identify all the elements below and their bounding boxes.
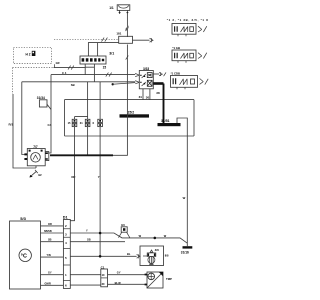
svg-text:BL: BL (127, 252, 131, 256)
svg-text:5: 5 (65, 256, 67, 260)
svg-text:SB: SB (87, 238, 91, 242)
svg-text:4/6: 4/6 (155, 248, 160, 252)
ground point 31/34 (39, 100, 51, 110)
svg-text:C 4: C 4 (62, 71, 67, 75)
svg-text:BL/R: BL/R (115, 281, 121, 285)
svg-text:10: 10 (102, 273, 105, 277)
svg-text:SB/SB: SB/SB (44, 230, 52, 233)
wire D1 to C1 pin 10 (70, 274, 101, 276)
ground bus right edge (193, 100, 195, 136)
connector strip D1 (63, 220, 70, 289)
sensor wire Y to ground (70, 229, 187, 244)
svg-text:D1: D1 (63, 216, 68, 220)
svg-text:31: 31 (139, 95, 143, 99)
relay ground stub (143, 89, 150, 100)
svg-text:2: 2 (65, 224, 67, 228)
dashed feed wire with marker (13, 64, 86, 69)
wire connector c riser (99, 82, 101, 120)
cluster wire Y/N (41, 254, 64, 257)
temp sensor (145, 272, 163, 288)
wire row B to relay (22, 81, 140, 84)
cluster wire OR (41, 223, 64, 226)
sender 4/6 (140, 246, 164, 266)
svg-text:GN/R: GN/R (45, 282, 51, 285)
junction dot on row B (112, 83, 114, 85)
left return wire down to pump (22, 82, 28, 155)
svg-text:*1 CDB: *1 CDB (171, 71, 180, 75)
legend fork 2 (198, 53, 207, 59)
main feed wire from 181 down to pump (50, 45, 128, 156)
wire GY to temp sensor (108, 271, 149, 275)
relay output stub with connector (153, 72, 166, 76)
riser to connector row (87, 82, 89, 120)
svg-text:1: 1 (65, 273, 67, 277)
wire 181 output right with connector stub (133, 38, 154, 42)
svg-text:GY: GY (48, 272, 52, 275)
svg-text:Y: Y (98, 175, 100, 179)
wire connector a down to D1 (70, 127, 74, 221)
stub to ground point (186, 243, 188, 246)
svg-text:SB: SB (71, 83, 75, 87)
svg-text:15: 15 (103, 66, 107, 70)
ground wire R/1 down left side (13, 94, 36, 168)
svg-text:SB: SB (48, 239, 52, 242)
relay 3/33 (139, 71, 153, 89)
svg-text:4/2: 4/2 (38, 173, 42, 177)
ground bus horizontal (65, 99, 195, 101)
svg-text:W: W (164, 234, 167, 238)
svg-text:Y: Y (86, 229, 88, 233)
svg-text:3: 3 (65, 232, 67, 236)
dashed option box H2 (13, 47, 51, 63)
ground bus riser (64, 100, 66, 136)
svg-text:W: W (139, 234, 142, 238)
dashed supply wire into 181 (54, 38, 119, 42)
wire 181 lower feed to ignition switch (88, 43, 118, 56)
svg-text:8/8: 8/8 (165, 253, 169, 257)
instrument cluster 5/3 (10, 221, 41, 289)
pump connector (45, 152, 49, 161)
svg-text:15: 15 (68, 121, 71, 125)
svg-text:*1 GB: *1 GB (172, 46, 180, 50)
svg-text:30: 30 (146, 96, 150, 100)
battery 1/1 (117, 5, 130, 14)
svg-text:E0: E0 (121, 223, 125, 227)
pump ground stub (35, 166, 37, 168)
svg-text:181: 181 (116, 32, 121, 36)
junction dot (99, 232, 102, 235)
svg-text:C4: C4 (48, 123, 52, 127)
pump 7/7 (24, 149, 45, 166)
svg-text:6: 6 (65, 284, 67, 288)
svg-text:31: 31 (80, 121, 83, 125)
wire connector b down to pump feed (87, 127, 89, 156)
ground bar 31/51 (158, 123, 181, 126)
svg-text:20: 20 (102, 282, 105, 286)
wire BL to sender 4/6 (70, 252, 140, 258)
legend connector 3 (171, 76, 198, 90)
svg-text:H 2: H 2 (26, 52, 31, 56)
cluster wire GN/R (41, 282, 64, 285)
svg-text:R/1: R/1 (9, 123, 14, 127)
legend fork 3 (200, 78, 209, 84)
svg-text:OR: OR (48, 223, 52, 226)
svg-text:4: 4 (65, 241, 67, 245)
svg-text:*1 3, *1 3B, 3/5, *1 8: *1 3, *1 3B, 3/5, *1 8 (167, 18, 208, 22)
svg-text:31/16: 31/16 (181, 251, 189, 255)
svg-text:X: X (92, 121, 94, 125)
svg-text:TMP: TMP (166, 277, 172, 281)
legend connector 2 (172, 50, 196, 63)
legend fork 1 (198, 26, 207, 32)
cluster wire GY (41, 272, 64, 275)
pump ground symbol (30, 170, 43, 178)
dashed boundary left (12, 68, 14, 94)
svg-text:3/33: 3/33 (143, 67, 149, 71)
connector a (72, 119, 77, 126)
junction dot (154, 237, 157, 240)
sender E0 (119, 227, 130, 238)
wire D1 to C1 pin 20 (70, 284, 101, 286)
ignition switch 3/1 (80, 56, 106, 64)
connector c (98, 119, 103, 126)
svg-text:3/1: 3/1 (109, 51, 114, 55)
svg-text:31/51: 31/51 (161, 119, 170, 123)
ground link wire right (177, 118, 187, 243)
svg-text:GR: GR (56, 61, 60, 65)
svg-text:GY: GY (117, 271, 121, 275)
wire row A to relay (51, 73, 139, 77)
ground point 31/16 (183, 246, 193, 248)
bus bar 15/2 (120, 114, 150, 117)
legend connector 1 (172, 24, 196, 37)
junction box 181 (119, 36, 133, 43)
wire connector c down to junction (99, 127, 101, 257)
wire W from D1 pin 4 (70, 238, 125, 242)
connector C1 (101, 269, 108, 287)
svg-text:15/2: 15/2 (128, 110, 135, 114)
wire column to pump connector (47, 75, 51, 153)
cluster wire SB (41, 239, 64, 242)
svg-text:1/1: 1/1 (109, 6, 114, 10)
bridge wire (75, 117, 88, 120)
connector b (85, 119, 90, 126)
junction dot (99, 255, 102, 258)
svg-text:W: W (183, 196, 186, 200)
ignition terminal link wires (85, 64, 94, 82)
svg-text:Y/N: Y/N (47, 254, 51, 257)
svg-text:C1: C1 (101, 265, 105, 269)
cluster wire SB/SB (41, 230, 64, 233)
svg-text:38: 38 (156, 91, 160, 95)
wire battery to 181 with break mark (126, 14, 129, 37)
svg-text:7/7: 7/7 (33, 145, 38, 149)
wire BL/R to temp sensor (108, 281, 148, 285)
svg-text:°C: °C (21, 254, 27, 260)
relay thick output wire (153, 82, 163, 85)
svg-text:5/3: 5/3 (20, 216, 26, 221)
temp gauge (19, 249, 31, 261)
svg-text:31/34: 31/34 (37, 96, 45, 100)
ground bus bottom edge (65, 135, 195, 137)
